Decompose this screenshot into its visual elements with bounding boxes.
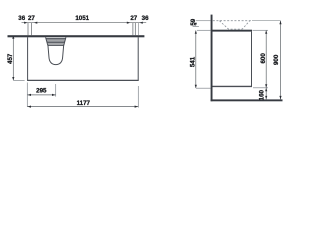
svg-text:27: 27 [28,15,35,22]
svg-text:457: 457 [7,53,14,64]
svg-text:600: 600 [260,53,267,64]
svg-text:1177: 1177 [77,100,91,107]
svg-text:36: 36 [142,15,149,22]
svg-text:27: 27 [130,15,137,22]
svg-text:160: 160 [259,89,266,100]
svg-text:900: 900 [273,54,280,65]
svg-text:1051: 1051 [75,15,89,22]
svg-text:36: 36 [18,15,25,22]
svg-text:59: 59 [190,18,197,25]
svg-text:541: 541 [189,56,196,67]
svg-text:295: 295 [36,87,47,94]
